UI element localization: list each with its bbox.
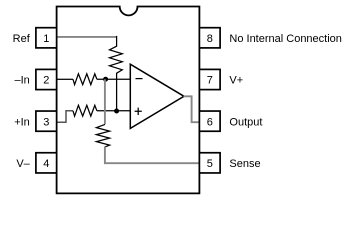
node: noninverting input junction <box>114 109 119 114</box>
svg-text:7: 7 <box>207 75 213 87</box>
svg-text:5: 5 <box>207 158 213 170</box>
wire: +In (pin 3) lead with jog <box>57 111 73 122</box>
svg-text:V–: V– <box>16 158 30 170</box>
svg-text:–In: –In <box>15 75 30 87</box>
pin 7 box <box>199 69 220 89</box>
svg-text:Ref: Ref <box>13 33 31 45</box>
resistor R1 (Ref to noninverting input), vertical <box>110 36 123 111</box>
svg-text:Sense: Sense <box>229 158 260 170</box>
pin 5 box <box>199 153 220 173</box>
pin 8 box <box>199 28 220 48</box>
wire: Ref (pin 1) to resistor R1 <box>57 36 116 38</box>
pin 6 box <box>199 111 220 131</box>
pin 2 box <box>36 69 57 89</box>
svg-text:V+: V+ <box>229 75 243 87</box>
wire: feedback from inverting node down to R4 <box>104 79 106 124</box>
wire: noninverting input line to op-amp <box>97 110 130 112</box>
resistor R3 (+In to noninverting input), horizontal <box>73 105 97 116</box>
pin 4 box <box>36 153 57 173</box>
wire: R4 to Sense pin 5 <box>105 147 199 164</box>
wire: -In (pin 2) lead <box>57 78 73 80</box>
pin 1 box <box>36 28 57 48</box>
svg-text:2: 2 <box>43 75 49 87</box>
svg-text:8: 8 <box>207 33 213 45</box>
svg-text:1: 1 <box>43 33 49 45</box>
node: inverting input junction <box>103 77 108 82</box>
svg-text:+In: +In <box>14 116 30 128</box>
svg-text:Output: Output <box>229 116 262 128</box>
op-amp A1 <box>130 64 184 128</box>
svg-text:6: 6 <box>207 116 213 128</box>
svg-text:No Internal Connection: No Internal Connection <box>229 33 342 45</box>
package outline U1 (DIP-8 body with index notch) <box>57 7 200 194</box>
pin 3 box <box>36 111 57 131</box>
resistor R4 (feedback to Sense), vertical <box>96 124 109 146</box>
wire: op-amp output to pin 6 <box>184 96 200 122</box>
resistor R2 (-In to inverting input), horizontal <box>73 74 97 85</box>
op-amp plus input symbol <box>135 108 142 115</box>
wire: inverting input line to op-amp <box>97 78 130 80</box>
svg-text:3: 3 <box>43 116 49 128</box>
op-amp minus input symbol <box>136 78 143 80</box>
svg-text:4: 4 <box>43 158 49 170</box>
